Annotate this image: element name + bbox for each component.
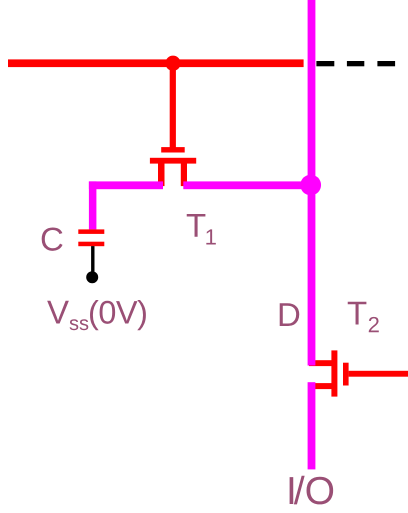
transistor T1 source stub — [158, 158, 165, 186]
wire: word line dashed continuation — [316, 61, 395, 66]
transistor T2 gate bar — [343, 363, 349, 386]
wire: T1 drain to bit line (horizontal magenta) — [183, 181, 311, 189]
capacitor C top plate — [78, 229, 104, 234]
transistor T1 drain stub — [181, 158, 187, 186]
label T1 — [187, 214, 216, 245]
wire: T2 gate line to right edge (red) — [349, 371, 408, 377]
wire: capacitor branch vertical magenta — [89, 181, 97, 229]
transistor T1 gate bar — [161, 147, 185, 152]
wire: capacitor to Vss (black) — [91, 246, 94, 272]
label Vss(0V) — [47, 300, 146, 330]
node: word line junction dot — [165, 56, 180, 71]
transistor T2 source stub — [309, 360, 332, 366]
transistor T2 channel bar — [331, 350, 337, 396]
wire: word line horizontal red — [8, 59, 304, 67]
wire: bit line D vertical (upper segment) — [308, 0, 316, 366]
transistor T1 channel bar — [150, 158, 196, 164]
wire: T1 source to capacitor (horizontal magenta) — [89, 181, 163, 189]
label D — [280, 303, 300, 326]
node: Vss terminal dot — [86, 271, 98, 283]
capacitor C bottom plate — [78, 242, 104, 247]
label C — [42, 227, 63, 250]
wire: word line to T1 gate vertical red — [170, 63, 176, 148]
label I/O — [290, 476, 334, 505]
label T2 — [348, 302, 379, 332]
transistor T2 drain stub — [309, 383, 332, 389]
wire: bit line D vertical (lower segment) — [308, 382, 316, 469]
node: bit line junction dot — [300, 175, 321, 196]
